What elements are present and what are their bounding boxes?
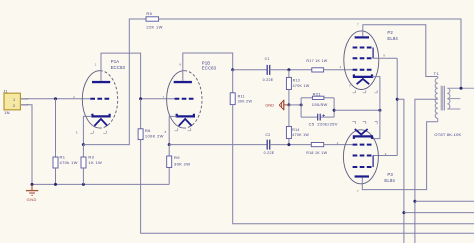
capacitor C5: [309, 114, 338, 127]
wire secondary bottom tap: [448, 108, 461, 110]
P2 heater stubs: [352, 90, 377, 93]
resistor R11: [230, 93, 252, 105]
wire center tap: [415, 99, 438, 243]
svg-text:C5: C5: [309, 121, 315, 126]
svg-text:2: 2: [13, 104, 15, 108]
wire g2 bus: [396, 58, 398, 155]
wire C1 to R17 node: [270, 69, 312, 71]
wire P1B plate loop to C1 node: [183, 53, 233, 81]
resistor R14: [286, 126, 309, 138]
wire secondary top tap: [448, 87, 474, 89]
wire g2 branch: [397, 99, 404, 243]
resistor R9: [167, 155, 191, 167]
node P1B grid: [139, 97, 142, 100]
pentode P2: [344, 30, 399, 90]
pentode P3: [343, 130, 395, 184]
P1A plate: [92, 81, 110, 83]
triode P1B: [167, 60, 217, 128]
triode P1A: [82, 59, 125, 128]
P1B grid: [175, 98, 194, 100]
svg-text:R9: R9: [174, 155, 180, 160]
svg-text:OT8T 8K-10K: OT8T 8K-10K: [434, 132, 461, 137]
svg-text:220E/25V: 220E/25V: [317, 121, 337, 126]
wire R1 top lead: [55, 99, 57, 157]
svg-text:470K 1W: 470K 1W: [292, 133, 309, 137]
wire ground rail: [32, 183, 169, 185]
wire secondary mid tap: [448, 98, 461, 100]
svg-text:R21: R21: [313, 91, 322, 96]
svg-text:1: 1: [13, 98, 15, 102]
node screen rail: [402, 211, 405, 214]
node R13 top: [287, 68, 290, 71]
wire P1B cathode junction: [169, 116, 177, 144]
svg-text:R18 1K 1W: R18 1K 1W: [306, 151, 327, 155]
connector J1: [3, 88, 28, 115]
capacitor C2: [264, 133, 275, 155]
resistor R17: [306, 59, 327, 72]
P3 grid g3: [353, 166, 372, 168]
wire R14 bottom lead: [288, 139, 290, 145]
P1B cathode arrow: [179, 119, 192, 126]
svg-text:1N: 1N: [4, 110, 9, 115]
svg-text:R13: R13: [293, 79, 301, 83]
wire R6 bottom rail: [141, 140, 474, 234]
P1A cathode arrow: [94, 119, 107, 126]
wire R14 top lead: [288, 105, 290, 127]
svg-text:R1: R1: [60, 155, 66, 160]
wire P1A cathode to junction: [83, 116, 92, 144]
wire feedback to R5: [83, 19, 146, 145]
resistor R6: [138, 128, 164, 139]
svg-text:P2: P2: [387, 30, 393, 35]
svg-text:ECC83: ECC83: [202, 66, 217, 71]
resistor R5: [146, 11, 163, 29]
wire R3 bottom lead: [82, 168, 84, 184]
node cathode bus: [378, 109, 381, 112]
wire P2 plate to transformer: [363, 25, 438, 77]
wire screen rail: [404, 212, 474, 214]
svg-text:470k 1W: 470k 1W: [60, 160, 78, 165]
P3 heater stubs: [352, 121, 377, 124]
ground GND right: [265, 100, 289, 110]
P2 cathode arrow: [357, 79, 370, 84]
wire R5 to transformer secondary: [159, 19, 461, 88]
wire RC to cathode bus: [334, 109, 380, 111]
svg-text:150/5W: 150/5W: [312, 102, 328, 107]
wire P3 plate to transformer: [362, 122, 437, 190]
P3 cathode arrow: [355, 129, 368, 135]
node RC left: [300, 103, 303, 106]
capacitor C1: [263, 57, 274, 82]
svg-text:1K 1W: 1K 1W: [88, 160, 102, 165]
svg-text:EL84: EL84: [384, 178, 395, 183]
node P1A cathode: [82, 143, 85, 146]
svg-text:R5: R5: [146, 11, 152, 16]
P2 cathode: [354, 74, 372, 77]
P2 g3-g2 strap: [372, 48, 374, 59]
wire P2 cathode to bus: [372, 77, 380, 139]
node R14 bottom: [287, 143, 290, 146]
svg-text:ECC83: ECC83: [111, 65, 126, 70]
node ct rail: [413, 200, 416, 203]
svg-text:C1: C1: [265, 57, 270, 61]
P2 plate: [355, 36, 369, 38]
P3 grid g2: [353, 155, 372, 157]
wire to C1: [233, 69, 268, 71]
svg-text:0.22E: 0.22E: [264, 151, 275, 155]
P2 grid g1: [353, 69, 372, 71]
node RC right: [333, 109, 336, 112]
P3 grid g1: [353, 144, 372, 146]
svg-text:R17 1K 1W: R17 1K 1W: [306, 59, 327, 63]
wire R9 bottom lead: [168, 168, 170, 185]
node R1 bottom: [54, 183, 57, 186]
svg-text:T1: T1: [434, 71, 440, 76]
P1B heater stubs: [175, 128, 191, 131]
P1B cathode: [177, 114, 194, 117]
node P1B cathode: [168, 143, 171, 146]
wire R9 top lead: [168, 145, 170, 156]
wire P3 g2 from bus: [373, 155, 397, 157]
resistor R21: [312, 91, 328, 106]
transformer T1 primary: [435, 77, 438, 122]
wire P2 g2 to bus: [373, 57, 397, 59]
svg-text:100K 2W: 100K 2W: [145, 134, 164, 139]
resistor R3: [81, 155, 102, 168]
svg-text:C2: C2: [265, 133, 270, 137]
wire R18 to P3 grid: [324, 144, 353, 146]
ground GND left: [26, 184, 38, 202]
P2 grid g3: [353, 47, 372, 49]
wire splitter output to C2: [169, 144, 267, 146]
P1A cathode: [92, 114, 109, 117]
svg-text:R14: R14: [292, 128, 300, 132]
svg-text:P3: P3: [387, 172, 393, 177]
P1B plate: [174, 81, 192, 83]
wire R3 top lead: [82, 145, 84, 157]
svg-text:30K 2W: 30K 2W: [174, 161, 190, 166]
node input junction: [54, 97, 57, 100]
node P1B plate: [231, 68, 234, 71]
svg-text:P1A: P1A: [111, 59, 119, 64]
T1 core: [441, 86, 444, 111]
T1 secondary: [447, 88, 450, 109]
P1A heater stubs: [90, 131, 106, 134]
resistor R18: [306, 143, 327, 156]
resistor R13: [286, 77, 309, 89]
wire R6 top lead: [140, 99, 142, 129]
wire P1A plate loop to P1B grid: [101, 53, 175, 99]
svg-text:22K 1W: 22K 1W: [146, 25, 162, 30]
P3 g3-g2 strap: [372, 156, 374, 168]
wire C2 to R18: [270, 144, 312, 146]
wire R11 bottom rail: [233, 105, 474, 224]
svg-text:GND: GND: [27, 197, 37, 202]
P1A grid: [90, 98, 109, 100]
svg-text:R11: R11: [238, 95, 245, 99]
P3 plate: [355, 175, 369, 177]
resistor R1: [53, 155, 78, 168]
node R3 bottom: [82, 183, 85, 186]
P3 cathode: [354, 136, 372, 139]
node feedback tap: [460, 87, 463, 90]
wire J1 pin1 to P1A grid: [27, 98, 90, 100]
P2 grid g2: [353, 57, 372, 59]
wire R17 to P2 grid: [324, 69, 353, 71]
wire ct rail: [415, 200, 474, 202]
svg-text:0.22E: 0.22E: [263, 78, 274, 82]
svg-text:470K 1W: 470K 1W: [293, 84, 310, 88]
svg-text:R3: R3: [88, 155, 94, 160]
node gnd left: [31, 183, 34, 186]
wire R13 bottom lead: [288, 90, 290, 105]
svg-text:30K 2W: 30K 2W: [238, 100, 253, 104]
wire RC frame: [301, 98, 334, 117]
node bias gnd: [287, 103, 290, 106]
svg-text:R6: R6: [145, 128, 151, 133]
svg-text:GND: GND: [265, 103, 274, 108]
wire R11 leads: [232, 70, 234, 93]
svg-text:EL84: EL84: [387, 36, 398, 41]
wire J1 pin2 down: [27, 105, 32, 185]
wire R13 top lead: [288, 70, 290, 78]
wire R1 bottom lead: [55, 168, 57, 184]
node g2 bus: [396, 98, 399, 101]
wire bias node to RC: [289, 104, 301, 106]
